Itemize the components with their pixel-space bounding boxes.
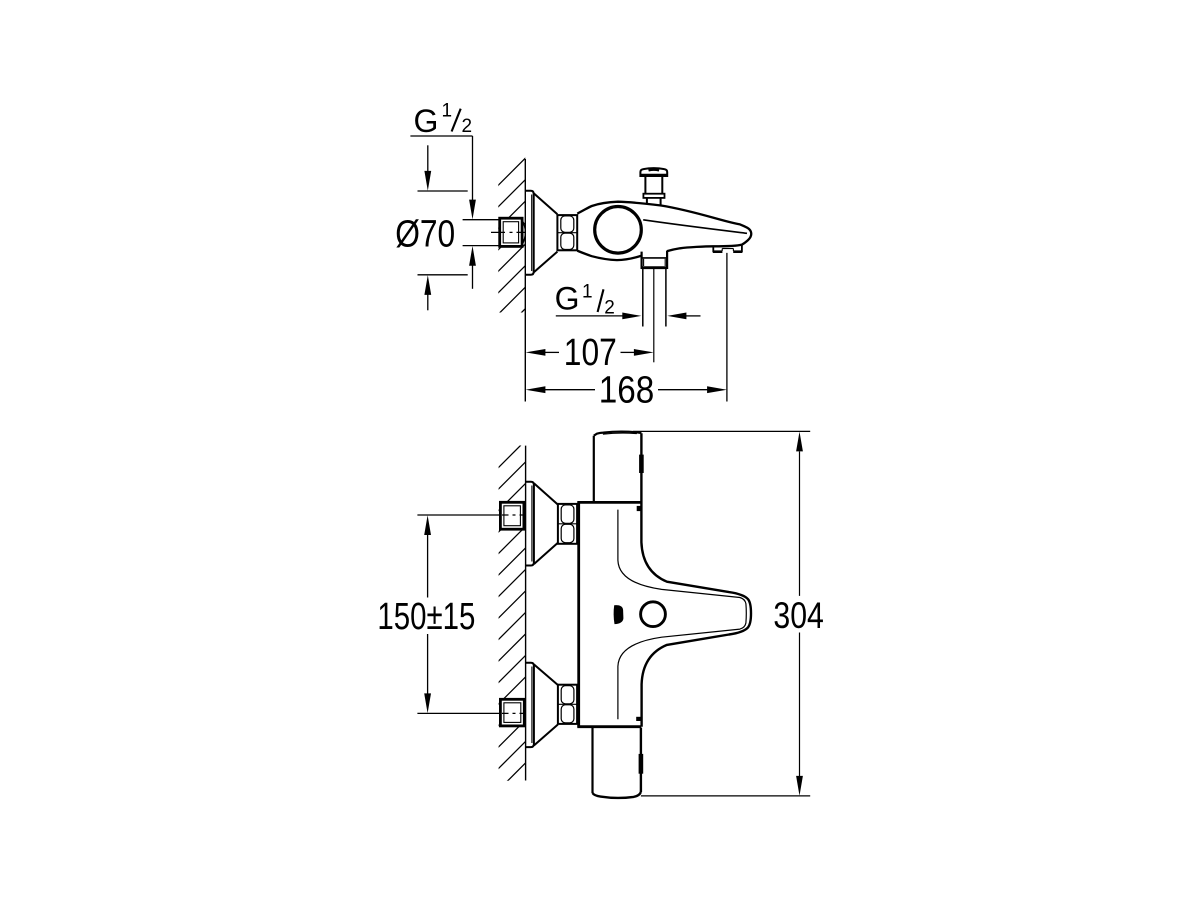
bottom square nut (417, 699, 527, 726)
dimension 150±15 (427, 534, 429, 696)
dimension 304 (633, 431, 810, 796)
bottom hex nut (558, 685, 577, 724)
square nut (wall union) (491, 218, 526, 246)
top hex nut (558, 504, 577, 544)
svg-text:2: 2 (462, 116, 473, 137)
extension line from aerator down (726, 253, 728, 402)
svg-text:1: 1 (442, 101, 453, 122)
arrowheads bottom drawing (424, 432, 803, 796)
diverter circle bottom drawing (641, 602, 666, 627)
svg-text:304: 304 (773, 595, 824, 636)
escutcheon (top drawing) (525, 191, 557, 275)
body + spout outline (top drawing) (577, 202, 751, 260)
168 (544, 389, 595, 391)
shower outlet below body (642, 251, 668, 363)
top cylinder (594, 432, 751, 727)
bottom escutcheon (526, 663, 558, 747)
top square nut (417, 502, 527, 529)
svg-text:150±15: 150±15 (377, 596, 475, 638)
diverter knob (top drawing) (640, 168, 667, 205)
spout crease line (643, 220, 747, 234)
thread end arc (522, 220, 525, 245)
107 (544, 351, 560, 353)
wall face line (top drawing) (524, 159, 526, 402)
aerator at spout tip (713, 245, 742, 253)
svg-text:168: 168 (599, 369, 655, 411)
inner thin contour (618, 510, 746, 720)
black marks bottom drawing (614, 506, 641, 721)
hex nut (top drawing) (557, 215, 577, 250)
wall face line (bottom drawing) (525, 446, 527, 781)
G1/2 top-left: underline and leaders (410, 135, 472, 137)
top escutcheon (526, 482, 558, 566)
svg-text:107: 107 (564, 332, 617, 374)
svg-text:Ø70: Ø70 (395, 213, 455, 255)
body box (577, 502, 641, 726)
arrowheads top drawing (424, 171, 727, 393)
texts bottom drawing (377, 595, 824, 638)
handle circle (top drawing) (595, 207, 642, 254)
svg-text:G: G (414, 103, 439, 139)
G1/2 middle dim lines (556, 315, 624, 317)
svg-text:2: 2 (604, 297, 615, 318)
texts top drawing (395, 101, 654, 412)
svg-text:G: G (555, 281, 580, 317)
svg-text:1: 1 (582, 282, 593, 303)
bottom cylinder (593, 728, 641, 798)
centerline dash-dot (491, 231, 526, 233)
